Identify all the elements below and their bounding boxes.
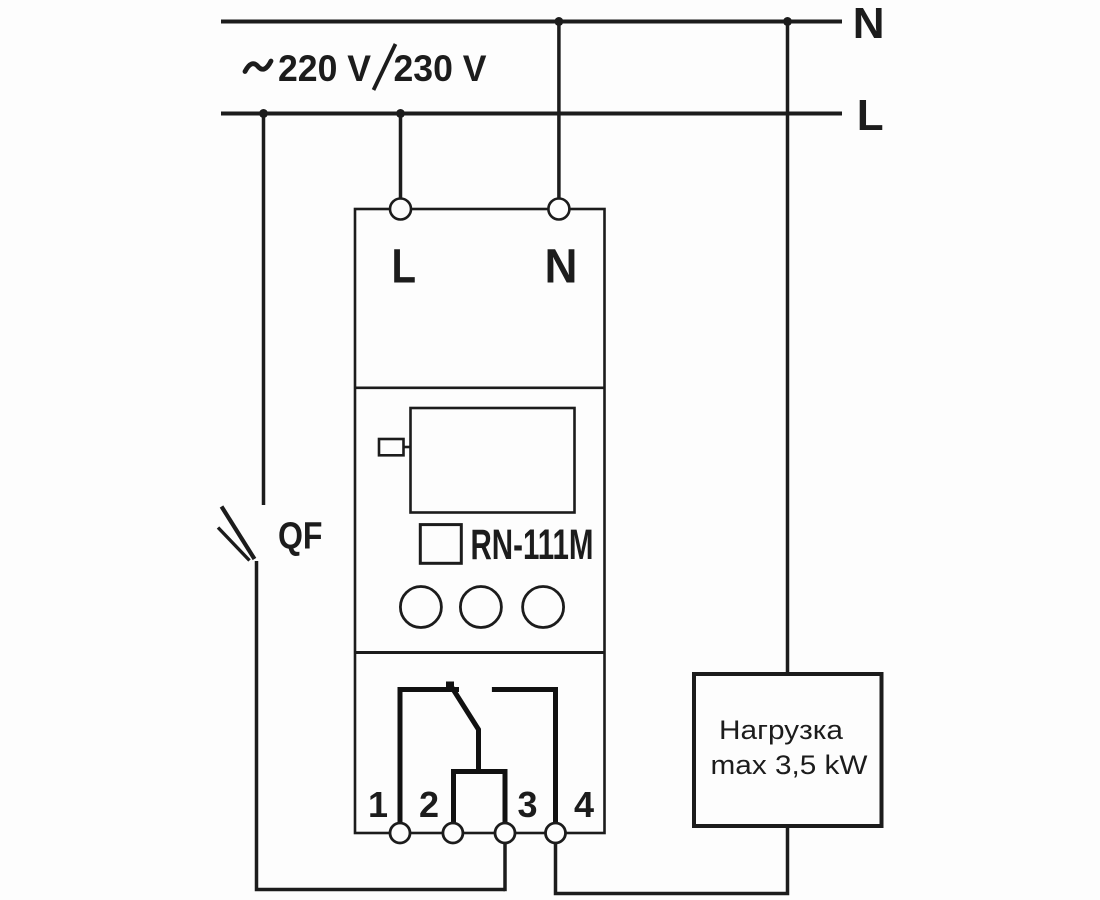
breaker QF blade xyxy=(218,507,255,561)
fixed contact to terminal 4 xyxy=(492,690,556,825)
svg-text:max 3,5 kW: max 3,5 kW xyxy=(711,750,869,780)
svg-text:N: N xyxy=(545,241,578,294)
display tab connector xyxy=(404,446,411,449)
label slash xyxy=(374,44,396,90)
wire from L bus down to breaker QF xyxy=(262,114,266,506)
label ~ 220 V/230 V tilde xyxy=(245,61,271,72)
moving contact blade xyxy=(451,686,479,772)
relay terminal 2 circle xyxy=(443,823,463,843)
relay terminal 1 circle xyxy=(390,823,410,843)
svg-text:2: 2 xyxy=(419,784,439,825)
junction dot on L bus at QF branch xyxy=(259,109,268,118)
junction dot on N bus at relay N branch xyxy=(554,17,563,26)
indicator square xyxy=(420,525,461,564)
svg-text:4: 4 xyxy=(574,784,594,825)
wire from terminal 3 down joining QF wire xyxy=(503,843,507,891)
svg-text:L: L xyxy=(857,91,884,140)
svg-text:QF: QF xyxy=(278,516,323,558)
junction dot on N bus at load branch xyxy=(783,17,792,26)
svg-text:Нагрузка: Нагрузка xyxy=(719,715,844,745)
relay terminal L circle xyxy=(390,199,411,220)
button circle 3 xyxy=(523,587,564,628)
wire N bus xyxy=(221,20,842,24)
relay upper divider xyxy=(355,386,605,389)
wire L bus xyxy=(221,112,842,116)
load box xyxy=(694,674,882,826)
svg-text:1: 1 xyxy=(368,784,388,825)
svg-text:L: L xyxy=(392,241,417,294)
display window of relay xyxy=(411,408,575,513)
wire from N bus down to relay terminal N xyxy=(557,22,561,199)
wire from terminal 4 to load box xyxy=(556,826,788,894)
button circle 2 xyxy=(460,587,501,628)
wire from L bus down to relay terminal L xyxy=(399,114,403,199)
svg-text:230 V: 230 V xyxy=(394,48,487,89)
contact bridge staple terminals 2-3 xyxy=(454,772,506,825)
junction dot on L bus at relay L branch xyxy=(396,109,405,118)
relay lower divider xyxy=(355,651,605,654)
wire from N bus down to load box xyxy=(786,22,790,674)
svg-text:3: 3 xyxy=(517,784,537,825)
svg-text:220 V: 220 V xyxy=(278,48,371,89)
button circle 1 xyxy=(400,587,441,628)
contact pivot dot xyxy=(446,682,454,689)
display side tab xyxy=(379,439,404,455)
contact riser from terminal 1 xyxy=(400,690,459,825)
relay terminal 3 circle xyxy=(495,823,515,843)
relay RN-111M body xyxy=(355,209,605,833)
wire from breaker QF down to terminal 3 wire xyxy=(257,561,506,890)
relay terminal 4 circle xyxy=(546,823,566,843)
relay terminal N circle xyxy=(548,199,569,220)
svg-text:N: N xyxy=(853,0,885,48)
svg-text:RN-111M: RN-111M xyxy=(471,522,594,569)
